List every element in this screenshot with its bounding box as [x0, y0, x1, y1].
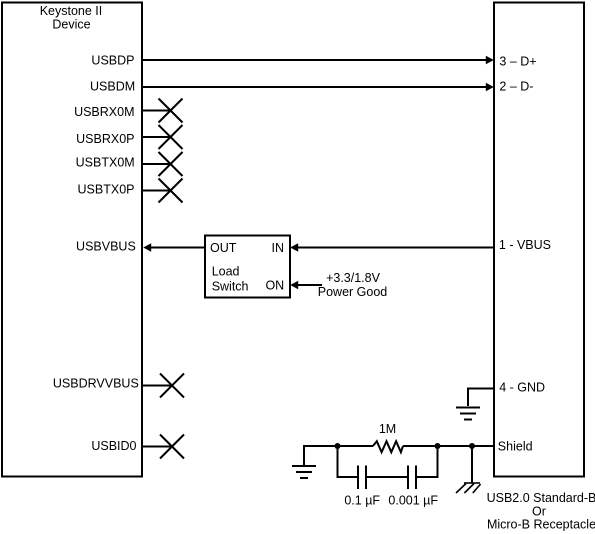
- svg-text:USBTX0P: USBTX0P: [78, 182, 135, 196]
- svg-text:USBRX0M: USBRX0M: [74, 105, 134, 119]
- svg-text:Or: Or: [532, 504, 546, 518]
- svg-text:USBRX0P: USBRX0P: [76, 132, 134, 146]
- svg-text:0.001 µF: 0.001 µF: [388, 494, 438, 508]
- svg-text:3 – D+: 3 – D+: [499, 54, 536, 68]
- svg-text:2 – D-: 2 – D-: [499, 80, 533, 94]
- svg-text:1 - VBUS: 1 - VBUS: [499, 238, 551, 252]
- svg-text:USBVBUS: USBVBUS: [76, 240, 136, 254]
- svg-text:OUT: OUT: [210, 241, 237, 255]
- svg-text:USBID0: USBID0: [91, 439, 136, 453]
- svg-text:USB2.0 Standard-B: USB2.0 Standard-B: [487, 491, 595, 505]
- svg-text:+3.3/1.8V: +3.3/1.8V: [326, 271, 381, 285]
- svg-text:1M: 1M: [379, 422, 396, 436]
- svg-text:ON: ON: [265, 279, 284, 293]
- svg-text:USBDM: USBDM: [90, 79, 135, 93]
- svg-text:4 - GND: 4 - GND: [499, 381, 545, 395]
- svg-text:Device: Device: [52, 18, 90, 32]
- svg-text:IN: IN: [272, 241, 285, 255]
- svg-text:USBTX0M: USBTX0M: [76, 155, 135, 169]
- svg-text:USBDP: USBDP: [91, 54, 134, 68]
- svg-text:Micro-B Receptacle: Micro-B Receptacle: [487, 517, 595, 531]
- svg-text:Shield: Shield: [498, 439, 533, 453]
- svg-text:USBDRVVBUS: USBDRVVBUS: [53, 377, 139, 391]
- svg-text:Keystone II: Keystone II: [40, 4, 103, 18]
- svg-text:Power Good: Power Good: [318, 285, 388, 299]
- svg-text:Load: Load: [212, 264, 240, 278]
- svg-text:0.1 µF: 0.1 µF: [344, 494, 380, 508]
- svg-text:Switch: Switch: [212, 279, 249, 293]
